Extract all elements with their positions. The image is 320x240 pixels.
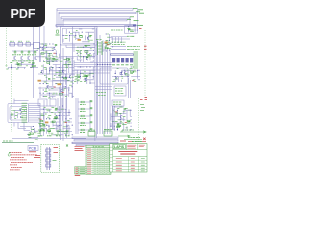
wire crossings bundle <box>97 64 98 65</box>
section border dashed left lower <box>11 62 13 132</box>
wire bottom bus trace 3 <box>72 142 118 143</box>
connector J1 outer box <box>8 104 29 123</box>
capacitor row left-top <box>14 50 17 54</box>
red notes above title block <box>120 140 146 142</box>
wire bottom bus trace 4 <box>76 145 116 146</box>
connector J1 wires below <box>14 123 34 131</box>
wire U below module <box>61 45 96 57</box>
front-end center dense <box>37 44 60 62</box>
BOM table cell text <box>87 149 91 174</box>
relay boxes left-top <box>9 44 36 51</box>
shield box right <box>100 68 128 84</box>
red ticks top right driver <box>140 99 147 101</box>
connector J1 wires out <box>29 103 41 122</box>
green hline bottom left <box>2 142 34 144</box>
connector J3 vertical <box>98 41 103 55</box>
note bullet circle <box>8 154 10 156</box>
shield module vertical chain <box>47 147 50 170</box>
net label orange 3 <box>105 42 108 44</box>
wire top bus trace 2 <box>59 12 136 14</box>
section border dashed right lower <box>138 98 140 141</box>
wire bend under badge <box>40 26 48 47</box>
net label orange 4 <box>45 122 48 124</box>
transistor row left <box>8 61 38 69</box>
IC top right internals <box>129 27 137 33</box>
wire bus right drops <box>57 8 138 31</box>
green tick right of dashed box <box>66 145 68 147</box>
wire rail x60.5 <box>60 44 62 140</box>
connector J1 pin labels <box>22 103 28 122</box>
shield module dashed box <box>41 145 60 173</box>
diode row left-top <box>14 56 16 60</box>
mid-right parts <box>74 44 95 62</box>
net label orange 1 <box>38 80 41 82</box>
title block lower text <box>116 159 135 171</box>
wire horizontal bundle mid <box>74 63 112 67</box>
BOM table column lines <box>93 145 108 174</box>
wire pair right <box>129 78 131 98</box>
connector J1 internals <box>11 111 25 119</box>
IC U30 box <box>114 86 126 96</box>
pin ladder right edge <box>134 51 139 53</box>
net label rows top right <box>111 29 123 31</box>
module U10 outer box <box>61 27 98 46</box>
logo cell divider <box>113 144 147 150</box>
title cell red title <box>113 156 147 158</box>
net rows right <box>111 46 127 48</box>
wire top bus thick VBAT <box>56 25 135 27</box>
section border dashed left upper <box>6 28 8 67</box>
dangling caps bottom row <box>39 126 41 130</box>
wire hlines mid right <box>75 70 112 73</box>
shield module labels red <box>34 148 58 158</box>
LAPIS logo <box>113 145 125 149</box>
resistor ladder rungs <box>81 101 84 103</box>
comparator column <box>103 34 112 52</box>
logic box B <box>50 99 56 106</box>
logo cell red text <box>127 145 145 148</box>
center dense mid <box>40 58 74 98</box>
header comb right <box>111 37 130 43</box>
square part X1 <box>34 42 40 48</box>
notes list red <box>10 151 22 153</box>
BOM table header <box>86 145 111 147</box>
wire hline pair low <box>95 87 112 90</box>
connector pins top right <box>127 8 140 19</box>
red tick bottom right corner <box>145 97 148 99</box>
power rail thick right <box>111 54 134 55</box>
wire vertical bus bundle <box>98 40 111 134</box>
driver stage right-bottom <box>111 107 132 131</box>
wire bottom left stub <box>2 142 34 144</box>
wire top bus trace 1 <box>57 9 133 11</box>
resistor ladder rails <box>76 98 90 134</box>
wire top bus trace 4 <box>63 20 127 21</box>
module U10 internals <box>63 29 94 42</box>
module U10 inner box <box>63 28 96 43</box>
IC box top right <box>125 26 138 33</box>
section border dashed right upper <box>144 30 146 98</box>
wire rail x66 <box>66 56 68 138</box>
revision table frame <box>75 167 86 175</box>
bus transceiver box A <box>88 132 95 137</box>
svg-text:PDF: PDF <box>11 7 36 21</box>
shield module stages <box>46 149 51 152</box>
wire long hlines center <box>38 74 75 95</box>
logic cluster center-bottom <box>37 106 72 136</box>
green arrows bottom right <box>118 135 142 140</box>
support parts right <box>112 70 140 82</box>
BOM table frame <box>86 145 111 174</box>
revision table text <box>75 167 78 169</box>
wire dark pair driver <box>113 106 115 130</box>
logic box A <box>38 99 47 106</box>
ferrite bead FB1 <box>133 24 136 26</box>
wire rail x33.5 <box>33 26 35 98</box>
red note rows left of table <box>75 146 85 150</box>
svg-text:PCB: PCB <box>29 147 37 151</box>
connector J1 inner box <box>10 107 27 121</box>
title block left strip <box>112 144 114 172</box>
net label orange module <box>78 39 81 41</box>
wire rail x94.9 <box>94 26 96 141</box>
BOM table row lines <box>86 148 111 173</box>
svg-text:LAPIS: LAPIS <box>114 145 125 149</box>
IC row dark right <box>112 58 115 62</box>
wire top bus trace 3 <box>61 17 130 18</box>
bus channel parts <box>74 67 95 84</box>
regulator parts left of module <box>57 30 59 33</box>
wire rail x39.5 <box>39 26 41 62</box>
title block frame <box>110 144 147 172</box>
wire rail x72.5 <box>72 26 74 98</box>
revision note red below <box>75 175 81 177</box>
revision table lines <box>75 167 86 175</box>
red X mark <box>143 138 145 140</box>
label box PCB <box>28 146 38 151</box>
green ticks right of driver <box>140 104 144 106</box>
title block lower grid <box>113 157 147 172</box>
net label orange 2 <box>58 83 61 85</box>
wire verticals center bottom <box>58 98 66 112</box>
green arrow out right <box>120 131 146 133</box>
wire rail x96.5 <box>96 28 98 138</box>
wire bottom bus trace 2 <box>74 140 118 141</box>
wire bottom bus trace 1 <box>72 137 118 138</box>
wire bottom long thin <box>12 138 86 140</box>
bottom parts left <box>28 128 38 140</box>
IC U31 box <box>112 100 124 106</box>
bus transceiver box B <box>104 131 112 136</box>
PDF badge <box>0 0 45 27</box>
wire rail x63 <box>62 48 64 141</box>
red tick at IC <box>139 28 142 30</box>
